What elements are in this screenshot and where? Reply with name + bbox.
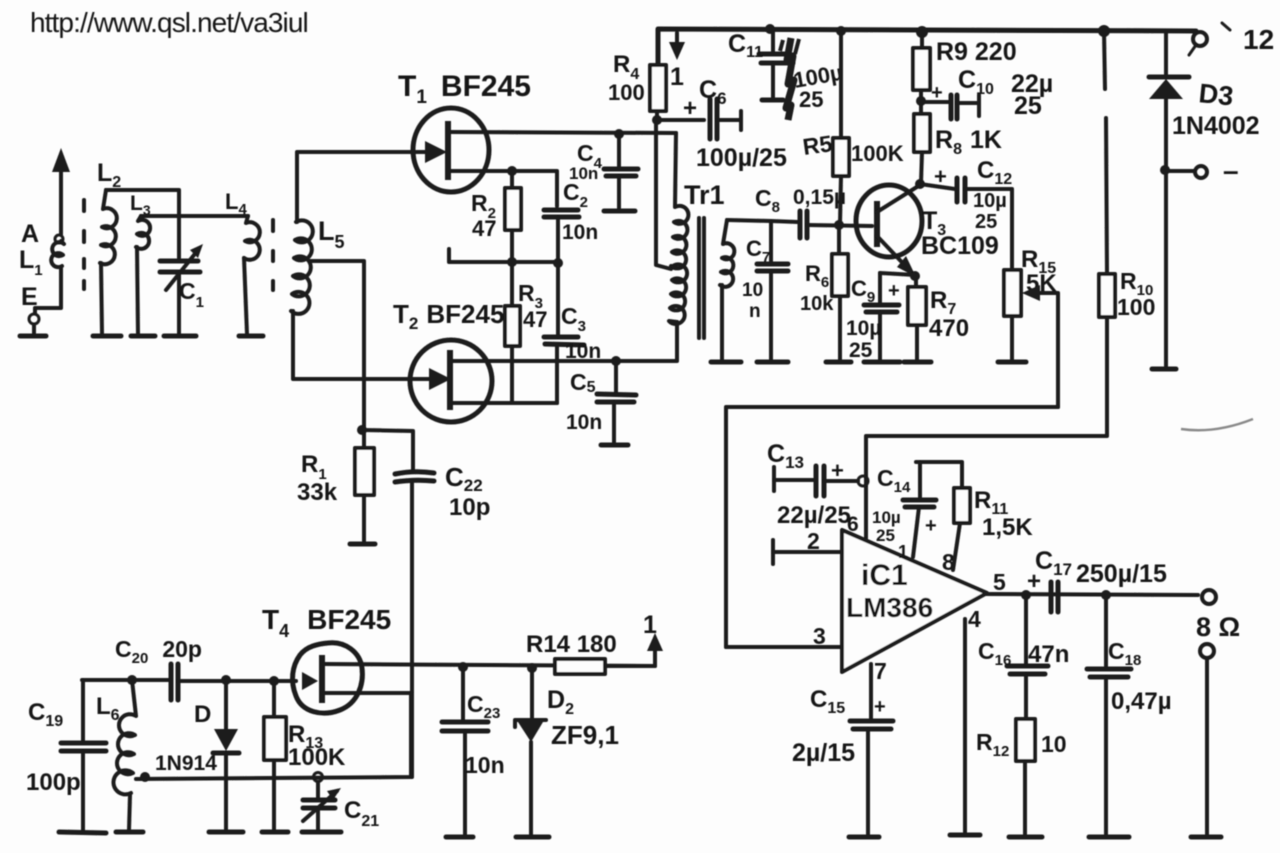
terminal output top bbox=[1202, 590, 1216, 604]
capacitor C15 bbox=[850, 721, 893, 834]
resistor R10 bbox=[1099, 274, 1115, 317]
svg-text:100µ/25: 100µ/25 bbox=[696, 144, 787, 172]
svg-text:470: 470 bbox=[929, 315, 969, 342]
node C16 junction bbox=[1021, 590, 1031, 600]
capacitor C8 bbox=[800, 211, 872, 238]
terminal +12V bbox=[1189, 32, 1207, 55]
ground R15 bbox=[998, 360, 1026, 365]
resistor R7 bbox=[908, 287, 926, 325]
wire T1 source bbox=[450, 171, 557, 206]
svg-text:1N914: 1N914 bbox=[155, 752, 217, 775]
ground C4 bbox=[604, 209, 635, 214]
wire L3 to L4 bbox=[141, 214, 248, 218]
svg-text:–: – bbox=[1223, 155, 1239, 186]
resistor R8 bbox=[914, 114, 930, 152]
wire output pin5 bbox=[985, 594, 1198, 595]
ground C19 bbox=[59, 832, 106, 833]
capacitor C7 bbox=[757, 221, 788, 360]
capacitor C5 bbox=[597, 361, 636, 443]
ground C5 bbox=[601, 443, 628, 448]
inductor L4 bbox=[244, 216, 260, 334]
svg-text:100K: 100K bbox=[851, 141, 904, 166]
antenna arrow bbox=[52, 148, 70, 234]
svg-text:10p: 10p bbox=[449, 494, 490, 521]
svg-text:n: n bbox=[749, 301, 761, 322]
diode D 1N914 bbox=[213, 680, 239, 830]
capacitor C22 bbox=[395, 472, 434, 777]
resistor R6 bbox=[832, 254, 848, 296]
svg-text:47n: 47n bbox=[1028, 641, 1069, 668]
wire R2 top bbox=[510, 171, 514, 188]
capacitor C20 bbox=[171, 664, 296, 700]
wire R5 bottom bbox=[840, 176, 841, 224]
transformer Tr1 primary bottom bbox=[669, 264, 687, 324]
capacitor C2 bbox=[544, 210, 579, 262]
node R5-R6-C8 junction bbox=[834, 220, 844, 230]
svg-text:100K: 100K bbox=[288, 744, 346, 771]
terminal minus bbox=[1195, 166, 1207, 178]
wire R3 bottom bbox=[510, 346, 514, 403]
wire emitter to R7 bbox=[914, 276, 918, 287]
ground L2 bbox=[93, 334, 121, 339]
wire T4 drain line bbox=[324, 664, 655, 666]
wire R4 bottom bbox=[657, 111, 704, 120]
svg-text:22µ/25: 22µ/25 bbox=[777, 502, 851, 529]
ground R7 bbox=[904, 360, 931, 365]
node T3 collector junction bbox=[915, 179, 925, 189]
ground output bbox=[1191, 835, 1221, 840]
node C2-C3 junction bbox=[553, 258, 563, 268]
svg-text:1: 1 bbox=[643, 611, 657, 639]
svg-text:10µ: 10µ bbox=[973, 190, 1007, 212]
svg-text:10k: 10k bbox=[800, 293, 834, 315]
wire pin3 input bbox=[726, 645, 842, 649]
wire R6 leads bbox=[839, 225, 840, 360]
capacitor C9 bbox=[864, 273, 899, 360]
ground L6 bbox=[116, 830, 143, 835]
inductor L2 bbox=[100, 190, 117, 334]
ground C7 bbox=[757, 360, 788, 365]
node Q terminal bbox=[29, 314, 39, 324]
svg-text:100: 100 bbox=[608, 80, 645, 105]
resistor R4 bbox=[650, 65, 666, 111]
svg-text:+: + bbox=[925, 515, 937, 537]
diode D2 zener bbox=[515, 668, 546, 835]
ground pin4 bbox=[950, 833, 980, 838]
node L6 top junction bbox=[127, 675, 137, 685]
svg-text:0,15µ: 0,15µ bbox=[793, 186, 846, 209]
svg-text:25: 25 bbox=[1014, 92, 1042, 120]
svg-text:7: 7 bbox=[874, 658, 887, 684]
wire T4 source bbox=[324, 691, 411, 695]
capacitor C14 bbox=[903, 462, 961, 557]
svg-text:33k: 33k bbox=[297, 479, 338, 506]
ground bbox=[20, 334, 46, 339]
capacitor C21 trimmer bbox=[303, 782, 341, 830]
svg-text:0,47µ: 0,47µ bbox=[1111, 688, 1172, 715]
node C18 junction bbox=[1101, 590, 1111, 600]
node R13 junction bbox=[269, 676, 279, 686]
capacitor C11 bbox=[759, 29, 799, 120]
wire R2 bottom bbox=[510, 230, 514, 262]
resistor R9 bbox=[913, 48, 930, 90]
wire L5 tap bbox=[310, 261, 364, 430]
svg-text:1N4002: 1N4002 bbox=[1172, 112, 1260, 140]
node C13 open junction bbox=[858, 476, 868, 486]
capacitor C10 bbox=[921, 95, 979, 119]
svg-text:R9 220: R9 220 bbox=[936, 38, 1017, 66]
capacitor C3 bbox=[544, 263, 584, 403]
svg-text:A: A bbox=[21, 220, 39, 248]
scan artifact curve bbox=[1181, 419, 1253, 430]
diode D3 bbox=[1149, 32, 1189, 366]
wire R10 bottom to IC1 pin6 bbox=[866, 317, 1107, 538]
transistor T4 bbox=[293, 643, 363, 713]
node L6 tap bbox=[140, 772, 150, 782]
wire emitter to C9 bbox=[880, 273, 915, 275]
inductor L3 bbox=[136, 216, 150, 334]
svg-text:10: 10 bbox=[1041, 731, 1067, 757]
tick mark near 12 bbox=[1222, 23, 1230, 30]
node C23 junction bbox=[458, 662, 468, 672]
capacitor C12 bbox=[920, 178, 1012, 270]
svg-text:250µ/15: 250µ/15 bbox=[1076, 560, 1167, 588]
wire T2 drain to Tr1 bbox=[452, 322, 677, 361]
svg-text:10n: 10n bbox=[465, 752, 505, 778]
svg-text:1: 1 bbox=[898, 542, 908, 562]
ground C23 bbox=[446, 835, 473, 840]
svg-text:+: + bbox=[888, 280, 900, 302]
svg-text:Tr1: Tr1 bbox=[684, 180, 725, 210]
svg-text:ZF9,1: ZF9,1 bbox=[551, 720, 619, 750]
transistor T1 bbox=[413, 108, 489, 192]
resistor R5 bbox=[833, 138, 849, 176]
inductor L1 bbox=[51, 241, 64, 267]
svg-text:10: 10 bbox=[742, 280, 763, 301]
wire +12V top rail bbox=[658, 29, 1196, 65]
resistor R2 bbox=[505, 188, 521, 230]
capacitor C23 bbox=[442, 667, 488, 835]
transistor T3 bbox=[856, 185, 922, 277]
wire L5 top to T1 gate bbox=[297, 152, 440, 222]
svg-text:D: D bbox=[194, 701, 211, 728]
wire Q to ground bbox=[32, 325, 36, 333]
svg-text:8 Ω: 8 Ω bbox=[1196, 612, 1240, 642]
wire R8 bottom bbox=[921, 152, 922, 183]
wire lower bus L6 tap to C21 and T4 source bbox=[136, 693, 411, 779]
svg-text:1: 1 bbox=[670, 63, 684, 91]
svg-text:5: 5 bbox=[993, 569, 1006, 595]
node T3 emitter junction bbox=[910, 271, 920, 281]
wire T1 drain bbox=[450, 132, 676, 133]
capacitor C4 bbox=[604, 134, 638, 208]
svg-text:2µ/15: 2µ/15 bbox=[792, 739, 855, 767]
wire L5 bottom to T2 gate bbox=[293, 311, 444, 379]
ground D bbox=[209, 830, 243, 835]
svg-text:10n: 10n bbox=[569, 164, 598, 183]
ground C21 bbox=[302, 830, 341, 835]
svg-text:10µ: 10µ bbox=[872, 508, 901, 527]
svg-text:25: 25 bbox=[799, 87, 823, 112]
op-amp IC1 LM386 triangle bbox=[842, 530, 987, 672]
wire output bottom to ground bbox=[1205, 658, 1209, 834]
ground C1 bbox=[164, 334, 196, 339]
capacitor C18 bbox=[1087, 595, 1131, 834]
ground R12 bbox=[1009, 835, 1042, 840]
node R4-C6 bbox=[652, 115, 662, 125]
capacitor C16 bbox=[1007, 595, 1048, 719]
svg-text:10n: 10n bbox=[562, 221, 598, 244]
svg-text:4: 4 bbox=[968, 606, 981, 632]
node C4 junction bbox=[614, 129, 624, 139]
resistor R14 bbox=[555, 659, 605, 674]
inductor L6 bbox=[113, 680, 136, 830]
inductor L5 bbox=[291, 220, 313, 314]
svg-text:http://www.qsl.net/va3iul: http://www.qsl.net/va3iul bbox=[30, 7, 308, 38]
capacitor C1 variable bbox=[160, 244, 203, 334]
ground D3 bbox=[1152, 367, 1176, 372]
ground C9 bbox=[864, 360, 900, 365]
ground L4 bbox=[239, 334, 263, 339]
arrow 1 top bbox=[669, 33, 685, 91]
svg-text:E: E bbox=[21, 283, 38, 311]
transformer Tr1 secondary bbox=[720, 220, 734, 287]
node rail-C11 bbox=[765, 24, 775, 34]
wire Tr1 secondary top to C8 bbox=[727, 220, 798, 222]
svg-text:+: + bbox=[831, 458, 844, 483]
wire T2 source bbox=[452, 401, 557, 405]
svg-text:25: 25 bbox=[975, 211, 997, 233]
resistor R11 bbox=[953, 462, 970, 570]
node D2 junction bbox=[527, 663, 537, 673]
svg-text:25: 25 bbox=[849, 339, 873, 362]
wire pin7 bbox=[869, 664, 873, 718]
wire R7 bottom bbox=[915, 325, 919, 360]
resistor R1 bbox=[355, 448, 374, 495]
wire pin2 input with stub bbox=[773, 540, 842, 564]
resistor R12 bbox=[1016, 719, 1035, 834]
capacitor C6 bbox=[710, 99, 741, 139]
svg-text:12: 12 bbox=[1243, 24, 1274, 55]
node rail-R9 bbox=[916, 26, 928, 38]
ground R13 bbox=[262, 830, 288, 835]
svg-text:iC1: iC1 bbox=[861, 559, 908, 592]
terminal output bottom bbox=[1200, 644, 1214, 658]
node rail-R10 bbox=[1098, 25, 1110, 37]
svg-text:+: + bbox=[683, 95, 697, 122]
ground Tr1 secondary bbox=[711, 360, 741, 365]
node C5 junction bbox=[611, 356, 621, 366]
svg-text:47: 47 bbox=[523, 307, 547, 332]
node R2-R3 junction bbox=[507, 257, 517, 267]
ground D2 bbox=[516, 835, 549, 840]
wire R4 node down to Tr1 tap bbox=[656, 120, 671, 269]
capacitor C13 bbox=[774, 466, 858, 496]
node R9-R8-C10 bbox=[916, 96, 926, 106]
svg-text:+: + bbox=[931, 82, 943, 104]
wire R5 top bbox=[839, 31, 843, 138]
svg-text:LM386: LM386 bbox=[846, 592, 933, 623]
svg-text:+: + bbox=[934, 164, 947, 189]
svg-text:10n: 10n bbox=[566, 411, 602, 434]
wire to minus terminal bbox=[1165, 169, 1194, 173]
wire bias rail with stub tick bbox=[449, 249, 558, 262]
potentiometer R15 bbox=[1004, 270, 1058, 407]
svg-text:25: 25 bbox=[876, 526, 895, 545]
wire R15 feedback to IC1 pin3 bbox=[726, 407, 1058, 647]
ground L3 bbox=[131, 334, 155, 339]
transformer Tr1 primary top bbox=[671, 133, 688, 268]
wire R9 leads bbox=[921, 32, 922, 114]
node C21 open junction bbox=[314, 773, 323, 782]
capacitor C19 bbox=[61, 680, 106, 830]
svg-text:47: 47 bbox=[472, 216, 496, 241]
wire antenna to E bbox=[35, 268, 61, 313]
ground C15 bbox=[849, 835, 879, 840]
wire input bus bbox=[82, 678, 169, 682]
svg-text:BC109: BC109 bbox=[921, 232, 999, 260]
svg-text:100p: 100p bbox=[26, 769, 81, 796]
node antenna terminal bbox=[55, 235, 63, 243]
resistor R13 bbox=[264, 681, 286, 830]
wire Tr1 secondary bottom bbox=[720, 285, 724, 360]
ground C18 bbox=[1089, 835, 1129, 840]
transistor T2 bbox=[410, 340, 492, 422]
wire R1 node to C22 bbox=[362, 430, 413, 471]
svg-text:R14 180: R14 180 bbox=[526, 631, 617, 658]
wire R14 to arrow 1 bbox=[605, 645, 655, 666]
dashed coupling line left of L2 bbox=[82, 200, 86, 289]
node rail-R5 bbox=[836, 26, 846, 36]
svg-text:100: 100 bbox=[1117, 294, 1155, 320]
arrow 1 bottom bbox=[643, 611, 663, 651]
capacitor C17 bbox=[1051, 582, 1058, 612]
ground R6 bbox=[826, 360, 851, 365]
node T1 source junction bbox=[507, 166, 517, 176]
dashed coupling line L4-L5 bbox=[271, 220, 275, 290]
svg-text:1,5K: 1,5K bbox=[982, 514, 1033, 541]
svg-text:10µ: 10µ bbox=[846, 317, 881, 340]
node D3-minus junction bbox=[1160, 165, 1170, 175]
node D 1N914 junction bbox=[221, 675, 231, 685]
svg-text:R5: R5 bbox=[801, 130, 834, 160]
transformer Tr1 core bbox=[699, 218, 704, 338]
wire R1 bottom bbox=[362, 495, 366, 541]
wire L2 top bbox=[106, 190, 179, 258]
svg-text:D3: D3 bbox=[1197, 78, 1234, 111]
ground R1 bbox=[350, 542, 375, 547]
resistor R3 bbox=[505, 306, 520, 346]
wire R1 top bbox=[362, 430, 366, 448]
node R1 junction bbox=[357, 425, 367, 435]
svg-text:+: + bbox=[874, 696, 886, 718]
wire pin4 to ground bbox=[963, 619, 967, 832]
wire R3 top bbox=[510, 262, 514, 306]
wire R10 top bbox=[1104, 31, 1107, 274]
